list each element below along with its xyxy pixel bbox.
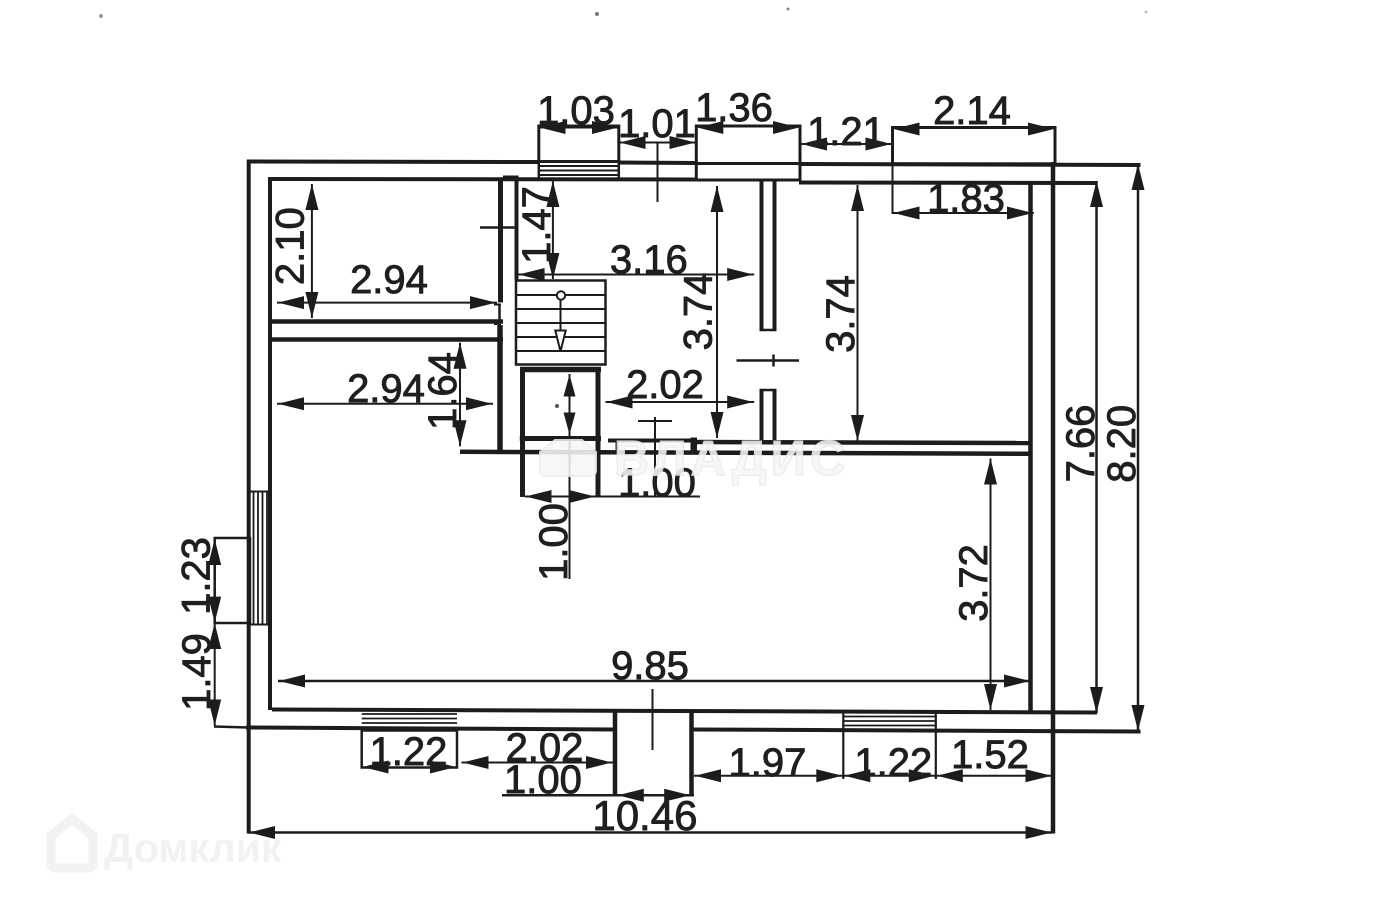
bottom window 1.22 left glazing bbox=[362, 709, 457, 711]
svg-text:1.97: 1.97 bbox=[728, 741, 806, 785]
window 1.03 glazing lines bbox=[539, 165, 619, 167]
bottom window 1.22 mid glazing bbox=[843, 716, 936, 718]
watermark Domclick house icon bbox=[51, 819, 93, 868]
dim 1.00 bottom arrows bbox=[618, 789, 644, 802]
svg-text:1.49: 1.49 bbox=[175, 633, 219, 711]
left wall outer line with extension down to 10.46 dim bbox=[247, 160, 251, 834]
stair door jamb bracket vertical bbox=[498, 304, 501, 325]
outer wall top, segment right of door 1.36 with extension to 8.20 dim bbox=[799, 164, 1141, 165]
hall wall bottom line bbox=[460, 452, 1031, 454]
stair door jamb tick bottom bbox=[494, 323, 501, 325]
hall wall top line left segment bbox=[608, 439, 691, 443]
hall wall door stub bbox=[616, 439, 619, 452]
svg-text:1.22: 1.22 bbox=[370, 730, 448, 774]
svg-text:1.83: 1.83 bbox=[927, 177, 1005, 221]
room1 bottom wall upper line bbox=[272, 319, 503, 324]
left window tick top bbox=[250, 491, 270, 493]
dim 1.21 line with arrows bbox=[800, 143, 893, 145]
svg-text:1.00: 1.00 bbox=[504, 758, 582, 802]
dim 1.36 arrows bbox=[697, 121, 723, 134]
watermark VLADIS house icon bbox=[540, 440, 596, 476]
stair tread 4 bbox=[516, 336, 606, 338]
svg-text:3.72: 3.72 bbox=[952, 544, 996, 622]
dim 1.22 mid line with arrows bbox=[843, 775, 936, 777]
svg-text:ВЛАДИС: ВЛАДИС bbox=[614, 432, 849, 486]
dim 3.16 line with arrows bbox=[518, 274, 755, 276]
dim 1.01 line with arrows bbox=[619, 142, 697, 144]
svg-text:Домклик: Домклик bbox=[104, 825, 282, 871]
door 1.36 box bbox=[696, 126, 800, 180]
wall room1/stairs left line bbox=[498, 179, 503, 303]
svg-text:1.01: 1.01 bbox=[618, 102, 696, 146]
svg-text:1.22: 1.22 bbox=[854, 741, 932, 785]
stair door jamb tick top bbox=[494, 304, 501, 306]
closet top wall bbox=[520, 367, 601, 373]
door tick in room1 right wall bbox=[480, 226, 517, 229]
right wall outer line with extension down to 10.46 dim bbox=[1051, 162, 1056, 834]
stair direction line start circle bbox=[557, 291, 565, 299]
extension line at bottom left corner for 1.49 bbox=[214, 727, 248, 728]
dim 1.52 line with arrows bbox=[936, 775, 1053, 777]
dim 1.03 line with arrows bbox=[539, 127, 619, 129]
svg-text:1.64: 1.64 bbox=[421, 352, 465, 430]
inner wall top, left span bbox=[268, 177, 697, 182]
closet left wall bbox=[520, 367, 525, 497]
middle wall left line lower bbox=[760, 390, 764, 441]
closet right wall bbox=[596, 367, 601, 497]
dim 3.74 right line with arrows bbox=[857, 185, 859, 441]
dim 3.72 line with arrows bbox=[990, 459, 992, 711]
dim 1.22 left arrows on box bottom bbox=[363, 761, 389, 774]
left window 1.23 box bbox=[215, 538, 250, 623]
svg-text:1.03: 1.03 bbox=[537, 89, 615, 133]
stair tread 1 bbox=[516, 294, 606, 296]
svg-text:1.52: 1.52 bbox=[951, 733, 1029, 777]
middle wall left line upper bbox=[760, 180, 764, 331]
svg-text:1.36: 1.36 bbox=[695, 86, 773, 130]
svg-text:2.02: 2.02 bbox=[626, 363, 704, 407]
specks bbox=[99, 14, 103, 18]
staircase box bbox=[516, 281, 606, 365]
dim 2.94 room1 line with arrows bbox=[277, 302, 497, 304]
wall room1/stairs top cap bbox=[503, 176, 519, 179]
hall door center cross vertical bbox=[654, 417, 656, 497]
bottom window 1.22 left box bbox=[362, 731, 457, 768]
dim 2.14 arrows bbox=[894, 123, 920, 136]
svg-text:7.66: 7.66 bbox=[1059, 405, 1103, 483]
room2 top wall line bbox=[272, 337, 503, 342]
svg-text:1.00: 1.00 bbox=[532, 503, 576, 581]
left wall inner line bbox=[268, 177, 272, 710]
dim 9.85 line with arrows bbox=[278, 680, 1031, 683]
dim 2.94 room2 line with arrows bbox=[277, 403, 493, 405]
stair direction line bbox=[560, 299, 562, 351]
middle wall door cap bottom bbox=[760, 389, 777, 392]
room2 right wall bbox=[497, 325, 503, 453]
window 1.03 box bbox=[539, 126, 619, 162]
bottom wall inner line with extension to 7.66 dim bbox=[272, 710, 1097, 713]
dim 8.20 line with arrows bbox=[1137, 164, 1140, 731]
dim 2.02 bottom line with arrows bbox=[462, 762, 614, 764]
svg-text:2.14: 2.14 bbox=[933, 89, 1011, 133]
stair direction arrowhead (open) bbox=[555, 331, 565, 352]
entrance door center tick bbox=[652, 689, 654, 750]
wall room1/stairs right line bbox=[515, 178, 519, 281]
middle wall door swing tick bbox=[772, 355, 775, 367]
svg-text:10.46: 10.46 bbox=[592, 792, 697, 839]
dim 1.64 line with arrows bbox=[459, 343, 461, 447]
svg-text:9.85: 9.85 bbox=[611, 644, 689, 688]
door 1.36 wall line across bbox=[696, 162, 800, 165]
closet bottom wall bbox=[520, 436, 601, 441]
dim 1.49 line with arrows bbox=[214, 623, 216, 726]
stair tread 2 bbox=[516, 308, 606, 310]
extension tick 1.01 bbox=[657, 143, 659, 202]
middle wall right line lower bbox=[773, 390, 777, 441]
middle wall door cap top bbox=[760, 329, 777, 332]
svg-text:8.20: 8.20 bbox=[1100, 405, 1144, 483]
dim 2.10 line with arrows bbox=[311, 184, 313, 318]
svg-text:1.47: 1.47 bbox=[515, 186, 559, 264]
dim 3.74 left line with arrows bbox=[716, 186, 718, 438]
svg-text:3.74: 3.74 bbox=[819, 275, 863, 353]
window 2.14 box bbox=[893, 128, 1056, 164]
right wall inner line bbox=[1028, 182, 1033, 712]
bottom wall outer line left of door bbox=[246, 728, 614, 730]
bottom window 1.22 mid verticals bbox=[842, 713, 844, 779]
dim 1.23 arrows bbox=[208, 539, 221, 565]
outer wall top, segment left bbox=[248, 160, 540, 165]
dim 1.97 line with arrows bbox=[694, 775, 843, 777]
entrance door left jamb bbox=[613, 711, 618, 796]
svg-text:3.74: 3.74 bbox=[677, 273, 721, 351]
dim 1.83 line with arrows bbox=[893, 212, 1034, 214]
outer wall top, segment between window 1.03 and door 1.36 bbox=[618, 161, 698, 166]
dim 1.47 line with arrows bbox=[552, 181, 554, 279]
dim 7.66 line with arrows bbox=[1095, 181, 1098, 713]
inner wall top, right span with extension to 7.66 dim bbox=[799, 181, 1098, 186]
closet vertical dim line with arrows bbox=[569, 374, 571, 579]
svg-text:1.21: 1.21 bbox=[807, 110, 885, 154]
hall wall end cap bbox=[691, 438, 698, 455]
middle wall door swing line bbox=[737, 359, 800, 362]
dim 10.46 line with arrows bbox=[248, 831, 1053, 834]
dim 2.02 center line with arrows bbox=[606, 401, 755, 403]
entrance porch bottom line / dim 1.00 line bbox=[502, 794, 694, 797]
left window tick bottom bbox=[250, 624, 270, 626]
hall door center cross horizontal bbox=[638, 420, 672, 422]
middle wall right line upper bbox=[773, 180, 777, 331]
svg-text:2.10: 2.10 bbox=[269, 207, 313, 285]
bottom wall outer line right of door with extension to 8.20 dim bbox=[694, 730, 1141, 732]
stair tread 5 bbox=[516, 350, 606, 352]
closet horizontal dim line with arrows bbox=[525, 496, 700, 498]
hall wall top line right segment bbox=[697, 442, 1031, 443]
left window glazing vertical lines bbox=[253, 493, 255, 625]
extension line 1.83 left bbox=[892, 164, 894, 214]
svg-text:2.94: 2.94 bbox=[347, 367, 425, 411]
stair tread 3 bbox=[516, 322, 606, 324]
svg-text:2.94: 2.94 bbox=[350, 258, 428, 302]
entrance door right jamb bbox=[689, 711, 694, 795]
svg-text:1.23: 1.23 bbox=[175, 537, 219, 615]
